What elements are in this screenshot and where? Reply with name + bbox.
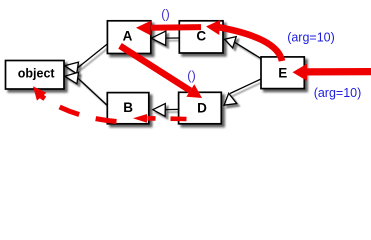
svg-text:D: D xyxy=(197,100,207,115)
svg-text:(): () xyxy=(187,68,196,83)
svg-text:E: E xyxy=(278,65,287,80)
svg-text:C: C xyxy=(196,28,206,43)
svg-text:(arg=10): (arg=10) xyxy=(287,31,335,45)
svg-text:A: A xyxy=(123,28,133,43)
svg-text:B: B xyxy=(123,100,133,115)
svg-text:(): () xyxy=(161,7,170,22)
svg-text:object: object xyxy=(18,66,56,80)
svg-text:(arg=10): (arg=10) xyxy=(314,86,362,100)
